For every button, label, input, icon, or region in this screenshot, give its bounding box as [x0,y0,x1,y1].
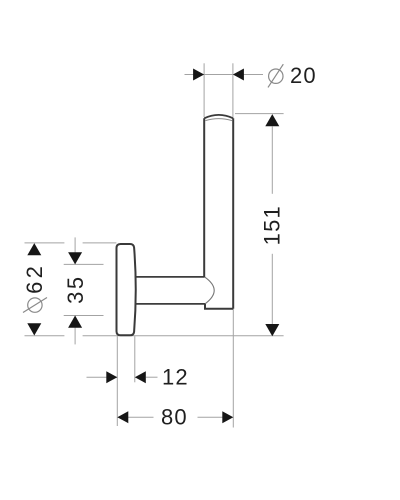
151 dimension line [271,127,273,194]
svg-text:151: 151 [260,205,285,245]
12 arrows (outside, pointing in) [106,371,117,383]
80 arrows (inside, pointing out) [117,411,128,423]
svg-text:35: 35 [63,274,88,304]
tube outline [204,115,233,309]
151 top extension line [235,113,284,115]
151 arrows (inside, pointing out) [265,114,279,126]
svg-text:62: 62 [22,263,47,294]
white fills [117,115,234,335]
Ø20 dimension line [185,74,233,76]
35 dimension line [74,237,76,263]
bottom vertical extension lines [116,336,118,426]
arm/tube intersection fillet [205,277,215,304]
arm edges [135,277,205,304]
tube cap inner rim [205,119,232,121]
Ø20 extension lines [203,63,205,117]
Ø62 arrows (inside, pointing out) [27,243,41,255]
plate outline [117,244,136,335]
Ø62 top extension line [25,242,65,244]
Ø20 arrows (outside, pointing in) [193,69,204,81]
shared bottom extension line (Ø62 bottom / 151 bottom) [25,335,65,337]
35 feature lines [64,263,104,265]
80 dimension line [128,416,154,418]
12 dimension line [87,376,118,378]
svg-text:12: 12 [162,365,189,390]
35 arrows (outside, pointing in) [68,252,82,264]
svg-text:20: 20 [290,63,317,88]
Ø20 diameter symbol [268,64,283,87]
Ø62 diameter symbol [23,298,47,313]
svg-text:80: 80 [161,405,188,430]
